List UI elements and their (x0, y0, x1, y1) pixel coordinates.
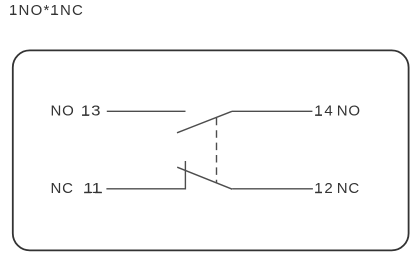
enclosure border (13, 50, 409, 250)
svg-text:12: 12 (314, 180, 334, 197)
svg-text:NO: NO (337, 103, 361, 120)
wire NC right lead (232, 188, 313, 190)
wire NO right lead (232, 110, 312, 112)
svg-text:NO: NO (51, 103, 75, 120)
svg-text:NC: NC (337, 180, 360, 197)
wire NO left lead (107, 110, 186, 112)
svg-text:NC: NC (51, 180, 74, 197)
switch blade NC contact (177, 167, 232, 189)
svg-text:11: 11 (84, 180, 102, 197)
mechanical linkage dashed line (216, 118, 218, 183)
title label 1NO*1NC (9, 2, 84, 19)
svg-text:1NO*1NC: 1NO*1NC (9, 2, 84, 19)
wire NC left lead (106, 188, 185, 190)
svg-text:14: 14 (314, 103, 334, 120)
switch blade NO contact (177, 111, 232, 133)
NC fixed contact bar (184, 161, 186, 190)
label NC 11 (51, 180, 102, 197)
label NO 13 (51, 103, 102, 120)
label 14 NO (314, 103, 360, 120)
svg-text:13: 13 (81, 103, 101, 120)
label 12 NC (314, 180, 360, 197)
